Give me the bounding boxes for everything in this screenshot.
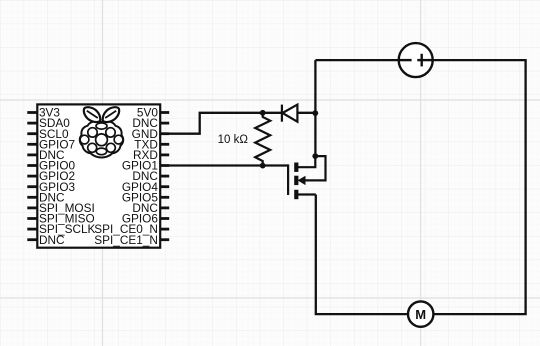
svg-text:DNC: DNC <box>39 233 65 247</box>
svg-text:SPI_CE1_N: SPI_CE1_N <box>94 233 158 247</box>
svg-text:M: M <box>415 307 426 322</box>
svg-text:10 kΩ: 10 kΩ <box>218 134 249 146</box>
